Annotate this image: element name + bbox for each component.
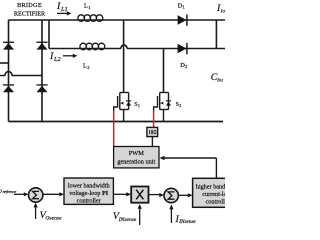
label L2 xyxy=(83,63,90,70)
svg-text:INsense: INsense xyxy=(178,219,196,225)
label L1 xyxy=(84,3,91,10)
svg-text:loa: loa xyxy=(221,9,225,15)
svg-text:refrence: refrence xyxy=(3,189,17,194)
svg-text:L1: L1 xyxy=(60,6,68,13)
svg-text:generation unit: generation unit xyxy=(117,158,155,165)
label D1 xyxy=(178,2,186,9)
svg-text:INsense: INsense xyxy=(118,217,137,223)
arrow VOsense into summer 1 xyxy=(34,203,38,219)
label IINsense xyxy=(175,214,197,225)
wire hop on L2 line over S1 drain xyxy=(121,45,127,48)
wire red gate drive S2 xyxy=(153,111,155,128)
svg-text:controller: controller xyxy=(206,199,225,206)
svg-text:1: 1 xyxy=(88,5,91,10)
inductor L1 xyxy=(78,15,103,22)
label Iload xyxy=(216,3,228,15)
arrow VINsense into multiplier xyxy=(138,204,142,225)
label VINsense xyxy=(113,211,137,223)
transistor S2 body diode symbol xyxy=(160,100,171,105)
svg-text:BRIDGE: BRIDGE xyxy=(17,2,42,9)
block 180 phase shift xyxy=(147,127,158,136)
arrow summer 1 to voltage PI controller xyxy=(43,192,64,196)
svg-text:current-loop: current-loop xyxy=(202,191,225,198)
label IL2 with arrow xyxy=(49,51,78,63)
label S1 xyxy=(134,102,140,108)
block PWM generation unit xyxy=(114,147,159,168)
wire AC input upper xyxy=(0,62,9,64)
summer node 1 xyxy=(29,188,43,202)
wire 180 box to PWM unit xyxy=(151,137,153,147)
label VO refrence xyxy=(0,189,16,195)
svg-text:controller: controller xyxy=(77,198,101,205)
wire output elbow vertical joining D1 row to D2 row xyxy=(215,20,217,49)
wire S2 drain vertical xyxy=(163,49,165,93)
svg-text:PWM: PWM xyxy=(129,150,144,157)
arrow voltage PI controller to multiplier xyxy=(114,192,132,196)
wire bridge right leg xyxy=(41,20,43,122)
inductor L2 xyxy=(80,43,105,50)
label IL1 with arrow xyxy=(56,1,72,16)
wire red gate drive S1 xyxy=(113,111,115,147)
diode bridge upper-right xyxy=(36,42,47,50)
arrow IINsense into summer 2 xyxy=(169,204,173,223)
wire bottom rail xyxy=(9,121,224,123)
arrow summer 2 to current controller xyxy=(179,193,193,197)
transistor S2 (MOSFET with body diode) xyxy=(154,93,169,122)
diode bridge lower-right xyxy=(36,84,47,92)
wire L2 branch tap xyxy=(49,20,225,49)
svg-text:higher bandwidth: higher bandwidth xyxy=(196,183,225,190)
block voltage loop PI controller xyxy=(64,178,113,205)
arrow multiplier to summer 2 xyxy=(149,193,164,197)
svg-text:2: 2 xyxy=(179,103,181,108)
wire S1 drain vertical xyxy=(123,20,125,93)
transistor S1 (MOSFET with body diode) xyxy=(114,93,129,122)
svg-text:2: 2 xyxy=(87,65,90,70)
wire bridge left leg xyxy=(8,20,10,122)
svg-text:O: O xyxy=(0,189,2,195)
wire current controller output to PWM with arrow xyxy=(160,156,217,179)
summer node 2 xyxy=(164,188,178,202)
svg-text:RECTIFIER: RECTIFIER xyxy=(14,10,46,17)
diode bridge lower-left xyxy=(3,84,14,92)
svg-text:lower bandwidth: lower bandwidth xyxy=(68,183,111,190)
svg-text:1: 1 xyxy=(183,5,186,10)
svg-text:1: 1 xyxy=(138,103,140,108)
svg-text:L2: L2 xyxy=(53,56,61,63)
bridge rectifier label xyxy=(14,2,46,17)
diode bridge upper-left xyxy=(3,42,14,50)
wire AC input lower with hop over left leg xyxy=(0,72,42,76)
wire top rail xyxy=(9,19,226,21)
svg-text:voltage-loop PI: voltage-loop PI xyxy=(69,190,109,197)
diode D2 xyxy=(178,43,187,54)
label Cbus xyxy=(211,72,223,84)
svg-text:bu: bu xyxy=(217,78,223,84)
arrow reference into summer 1 xyxy=(14,192,28,196)
transistor S1 body diode symbol xyxy=(120,100,131,105)
diode D1 xyxy=(178,15,187,26)
svg-text:Osense: Osense xyxy=(45,215,62,221)
label VOsense xyxy=(40,210,62,222)
block multiplier X xyxy=(131,187,148,203)
svg-text:2: 2 xyxy=(185,64,188,69)
label S2 xyxy=(176,102,182,108)
label D2 xyxy=(180,62,188,69)
block current loop controller xyxy=(193,178,243,207)
